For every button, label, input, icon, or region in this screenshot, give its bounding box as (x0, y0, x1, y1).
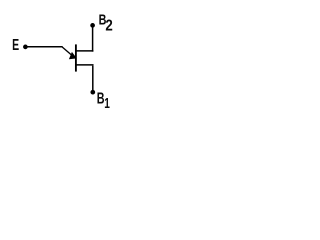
terminal dot B2 (90, 23, 95, 28)
emitter arrowhead into base bar (69, 52, 77, 59)
wire emitter diagonal (62, 47, 74, 57)
UJT base bar (75, 44, 77, 71)
wire B2 horizontal lead (75, 50, 93, 52)
svg-text:E: E (12, 37, 19, 54)
svg-text:1: 1 (104, 96, 110, 112)
wire B1 drop (92, 66, 94, 93)
terminal dot B1 (90, 90, 95, 95)
wire emitter horizontal (27, 46, 62, 48)
svg-text:2: 2 (105, 17, 112, 34)
wire B1 horizontal lead (75, 64, 93, 66)
wire B2 riser (92, 25, 94, 51)
terminal dot E (23, 45, 28, 50)
